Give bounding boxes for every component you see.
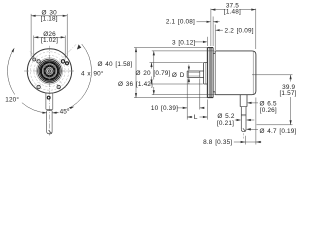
- collar front face: [203, 63, 205, 85]
- horizontal centerline: [24, 70, 75, 72]
- ext lines 2.1/2.2: [207, 17, 215, 51]
- cable step front: [46, 109, 53, 110]
- shaft chamfer line: [187, 71, 189, 77]
- body inner line near right: [252, 51, 254, 94]
- arrow 10: [183, 107, 188, 109]
- arc piece near 45 label: [52, 111, 57, 114]
- arrow 8.8 right: [256, 141, 261, 143]
- thick ring r8.5: [41, 62, 58, 79]
- bolt hole upper-right outer: [66, 62, 69, 65]
- shaft tip edge: [186, 71, 188, 77]
- arrow 2.1 right: [213, 21, 218, 23]
- bolt hole lower-left: [37, 85, 40, 88]
- bolt circle dashed r16: [34, 55, 65, 86]
- cable gland front view: [46, 93, 53, 109]
- arrow 3: [203, 41, 208, 43]
- svg-text:Ø 5.2: Ø 5.2: [217, 113, 234, 120]
- thick ring r4.9 shaft: [45, 66, 55, 76]
- dim Ø20: [150, 63, 203, 85]
- svg-text:2.1 [0.08]: 2.1 [0.08]: [166, 19, 195, 26]
- collar inner line: [205, 63, 207, 85]
- arrow 10 right: [200, 107, 205, 109]
- arrow 39.9 top: [290, 75, 292, 80]
- ring r2.8: [47, 68, 53, 74]
- body outline: [215, 51, 256, 95]
- arrow 37.5 right: [251, 9, 256, 11]
- encoder flange outer circle: [27, 49, 71, 93]
- arrow Ø40 bottom: [135, 93, 137, 98]
- dim Ø36: [152, 51, 215, 95]
- hole radial ticks: [32, 58, 70, 90]
- leader Ø6.5: [250, 102, 259, 104]
- svg-text:45°: 45°: [60, 108, 70, 116]
- ring 2.2 step: [213, 51, 215, 95]
- svg-text:[1.57]: [1.57]: [279, 90, 296, 97]
- clamp ring 2.1: [212, 48, 214, 98]
- ring r6.7: [43, 64, 56, 77]
- shaft collar ring: [36, 58, 62, 84]
- arrow Ø4.7: [246, 128, 251, 130]
- shaft step: [199, 71, 201, 77]
- cable end curl front: [49, 130, 52, 134]
- arrow Ø40 top: [135, 48, 137, 53]
- arrow right Ø26: [61, 36, 66, 38]
- collar outline: [204, 63, 208, 85]
- cable end break side: [241, 129, 246, 131]
- arrow ØD top: [188, 67, 190, 72]
- arrow Ø5.2: [237, 119, 242, 121]
- dim 2.1 leader: [197, 21, 220, 23]
- gland step: [240, 106, 247, 108]
- dim 37.5: [211, 9, 256, 49]
- arrow 2.1: [207, 21, 212, 23]
- dim 39.9: [252, 75, 293, 125]
- svg-text:Ø D: Ø D: [172, 72, 185, 79]
- shaft: [187, 71, 203, 77]
- dim 10: [178, 79, 205, 120]
- angular dimension arc r42 piece top-right: [82, 44, 92, 70]
- arc piece right-bottom: [67, 70, 92, 110]
- bolt hole bottom center: [47, 96, 50, 99]
- flange disk: [207, 48, 213, 98]
- cable side: [241, 107, 246, 130]
- arrow L left: [187, 116, 192, 118]
- cable end break: [47, 131, 53, 134]
- arrow L right: [203, 116, 208, 118]
- arrow Ø36 top: [153, 51, 155, 56]
- svg-text:8.8 [0.35]: 8.8 [0.35]: [203, 139, 232, 146]
- dim L: [187, 100, 207, 120]
- arc arrow at -55deg: [69, 107, 74, 109]
- cable tick marks: [241, 114, 246, 115]
- shaft inner lines: [188, 72, 199, 76]
- arc arrow right of cable: [52, 112, 57, 114]
- leader Ø5.2: [235, 119, 255, 121]
- ring r10.3: [39, 61, 60, 82]
- arrow 37.5 left: [211, 9, 216, 11]
- bolt hole upper-right inner: [61, 60, 64, 63]
- dimension Ø30 line: [31, 14, 67, 57]
- svg-text:[0.21]: [0.21]: [217, 120, 234, 127]
- bolt circle dashed r20: [30, 52, 68, 90]
- arc arrow at 148deg: [12, 48, 15, 53]
- leader 45deg: [53, 112, 59, 114]
- dim Ø40: [134, 48, 211, 98]
- bolt hole upper-left outer: [33, 58, 36, 61]
- arrow Ø6.5: [247, 102, 252, 104]
- svg-text:Ø 36 [1.42]: Ø 36 [1.42]: [118, 81, 153, 88]
- leader Ø4.7: [248, 128, 258, 130]
- arrow ØD bottom: [188, 77, 190, 82]
- arrow left Ø30: [31, 15, 35, 17]
- arc arrow left of cable: [42, 112, 47, 114]
- arrow 39.9 bottom: [290, 120, 292, 125]
- svg-text:[1.48]: [1.48]: [224, 8, 241, 15]
- svg-text:[0.26]: [0.26]: [260, 107, 277, 114]
- svg-text:[1.02]: [1.02]: [41, 37, 58, 44]
- svg-text:[1.18]: [1.18]: [41, 15, 58, 22]
- arrow 8.8 left: [241, 141, 246, 143]
- arrow left Ø26: [34, 36, 39, 38]
- dim ØD arrows: [188, 65, 190, 84]
- cable axis dashes below: [243, 133, 245, 138]
- diagonal centerline 135: [34, 44, 77, 87]
- svg-text:Ø 4.7 [0.19]: Ø 4.7 [0.19]: [260, 128, 297, 135]
- vertical centerline: [48, 46, 50, 136]
- svg-text:L: L: [194, 114, 198, 121]
- svg-text:Ø 40 [1.58]: Ø 40 [1.58]: [98, 61, 133, 68]
- bolt hole lower-right: [57, 85, 60, 88]
- dimension Ø26 line: [34, 36, 65, 59]
- dim 2.2 leader: [220, 29, 223, 31]
- arrow Ø20 bottom: [150, 80, 152, 85]
- arc piece left: [8, 49, 15, 95]
- dim 8.8: [234, 98, 261, 145]
- svg-text:Ø 20 [0.79]: Ø 20 [0.79]: [136, 70, 171, 77]
- svg-text:120°: 120°: [5, 96, 19, 104]
- arrow 2.2: [215, 29, 220, 31]
- svg-text:3 [0.12]: 3 [0.12]: [172, 40, 196, 47]
- arrow of 4x90 leader pointing at hole: [77, 44, 81, 49]
- arrow Ø36 bottom: [153, 90, 155, 95]
- diagonal centerline 45: [30, 51, 66, 87]
- cable end curl side: [243, 128, 246, 131]
- svg-text:4 x 90°: 4 x 90°: [81, 69, 104, 77]
- body front edge: [214, 51, 216, 95]
- bolt hole upper-left inner: [37, 60, 40, 63]
- arrow Ø5.2 right: [246, 119, 251, 121]
- arrow right Ø30: [63, 15, 68, 17]
- svg-text:2.2 [0.09]: 2.2 [0.09]: [225, 28, 254, 35]
- center dot: [48, 70, 51, 73]
- svg-text:10 [0.39]: 10 [0.39]: [151, 105, 178, 112]
- arc piece bottom-left: [22, 103, 47, 113]
- cable gland side: [240, 95, 247, 107]
- cable front: [47, 111, 53, 132]
- arrow Ø20 top: [150, 63, 152, 68]
- dim 3 leader: [195, 41, 203, 43]
